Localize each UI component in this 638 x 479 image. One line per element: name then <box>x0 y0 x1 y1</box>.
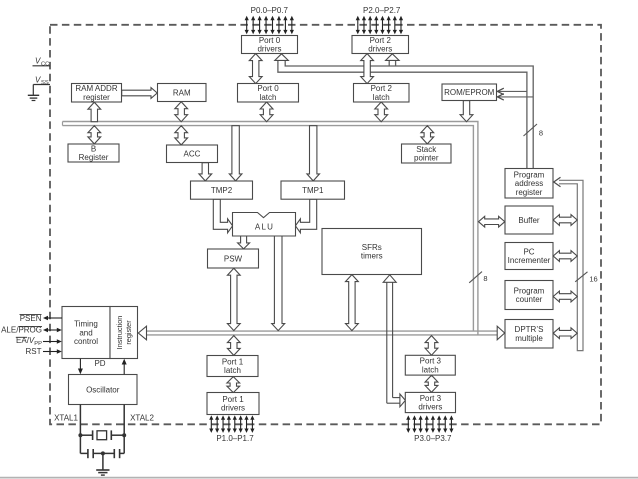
capacitor row <box>80 452 87 454</box>
L-arrow TMP2 to ALU <box>213 199 232 233</box>
arrowhead into program address register <box>554 177 561 187</box>
arrowhead up into Port 0 drivers <box>275 54 289 61</box>
svg-text:Port 3: Port 3 <box>420 357 442 366</box>
arrow Port2 drivers-latch <box>361 54 374 84</box>
svg-text:Port 3: Port 3 <box>420 394 442 403</box>
arrowhead into instruction register <box>138 326 146 340</box>
svg-text:register: register <box>83 93 110 102</box>
crystal circuit wires <box>79 405 81 454</box>
svg-text:PD: PD <box>94 359 105 368</box>
arrowhead into DPTR multiple <box>497 326 505 340</box>
svg-text:drivers: drivers <box>418 403 442 412</box>
slash 8 on internal bus vertical <box>469 272 482 283</box>
svg-text:RAM ADDR: RAM ADDR <box>75 84 117 93</box>
svg-text:ALE/PROG: ALE/PROG <box>1 326 42 335</box>
svg-text:CC: CC <box>41 61 49 67</box>
TMP2 <box>191 181 253 199</box>
RAM ADDR register <box>72 84 122 103</box>
svg-text:SFRs: SFRs <box>362 243 382 252</box>
svg-text:PSEN: PSEN <box>20 314 42 323</box>
svg-text:drivers: drivers <box>257 45 281 54</box>
Port 0 latch <box>238 84 299 103</box>
svg-text:pointer: pointer <box>414 154 439 163</box>
arrow oscillator to instruction register <box>123 362 125 374</box>
Port 0 pin arrows P0.0-P0.7 <box>246 18 248 33</box>
svg-text:multiple: multiple <box>515 334 543 343</box>
svg-text:register: register <box>516 188 543 197</box>
Stack pointer <box>402 144 452 163</box>
Timing and control <box>62 307 110 359</box>
arrow SFRs-second bus <box>346 275 359 331</box>
svg-text:latch: latch <box>224 366 241 375</box>
Port 3 pin arrows P3.0-P3.7 <box>407 417 409 431</box>
arrow Port0 latch-bus <box>260 102 273 122</box>
arrow bus to TMP1 <box>307 126 320 181</box>
dashed chip boundary <box>50 25 601 425</box>
arrow ALU to second bus <box>272 236 285 331</box>
arrow ROM to bus <box>460 101 473 122</box>
svg-text:Instruction: Instruction <box>115 316 124 350</box>
bottom page rule <box>0 477 638 479</box>
svg-text:8: 8 <box>483 274 487 283</box>
svg-text:timers: timers <box>361 252 383 261</box>
svg-text:TMP2: TMP2 <box>211 186 233 195</box>
junction dots <box>78 433 82 437</box>
svg-text:Program: Program <box>514 286 545 295</box>
EA/VPP pin <box>43 341 59 343</box>
svg-text:Port 2: Port 2 <box>370 36 392 45</box>
RAM <box>158 84 207 102</box>
Oscillator <box>69 375 138 405</box>
svg-text:PC: PC <box>523 247 534 256</box>
DPTR's multiple <box>505 320 553 349</box>
Program counter <box>505 281 553 310</box>
svg-text:16: 16 <box>589 275 597 284</box>
arrow DPTR to 16-bus <box>553 328 577 339</box>
svg-text:P2.0–P2.7: P2.0–P2.7 <box>363 6 401 15</box>
svg-text:register: register <box>124 320 133 345</box>
svg-text:and: and <box>79 328 92 337</box>
Port 2 latch <box>354 84 410 103</box>
16-bit bus (right) <box>559 180 583 350</box>
svg-text:Port 2: Port 2 <box>371 84 393 93</box>
Port 1 drivers <box>207 393 259 415</box>
svg-text:ACC: ACC <box>184 150 201 159</box>
arrow bus to TMP2 <box>229 126 242 181</box>
Port 0 drivers <box>242 36 298 54</box>
arrow ALU to PSW <box>238 236 250 249</box>
svg-text:Oscillator: Oscillator <box>86 385 120 394</box>
svg-text:DPTR’S: DPTR’S <box>515 325 544 334</box>
arrow second bus to Port1 latch <box>227 336 240 356</box>
PC incrementer <box>505 243 553 270</box>
TMP1 <box>281 181 345 199</box>
arrow RAM ADDR to RAM <box>122 88 158 99</box>
arrow second bus to Port3 latch <box>425 336 438 356</box>
Port 2 drivers <box>352 36 409 54</box>
svg-text:Port 1: Port 1 <box>222 357 244 366</box>
svg-text:Port 0: Port 0 <box>259 36 281 45</box>
crystal plates <box>92 430 94 440</box>
feed bus from port drivers to ROM/program address register <box>285 60 533 168</box>
svg-text:B: B <box>91 144 96 153</box>
arrow vertical bus to Buffer <box>479 216 505 227</box>
arrow Stack pointer-bus <box>421 126 434 144</box>
Instruction register <box>110 307 138 359</box>
Program address register <box>505 169 553 199</box>
arrow Program counter to 16-bus <box>553 291 577 302</box>
ACC <box>167 145 218 163</box>
ALU <box>233 213 296 237</box>
Port 3 latch <box>405 355 455 375</box>
ground (crystal) <box>102 453 104 470</box>
svg-text:Port 0: Port 0 <box>257 84 279 93</box>
slash 8 on program address bus <box>524 124 538 136</box>
arrow Buffer to 16-bus <box>553 215 577 226</box>
slash 16 <box>575 272 587 282</box>
svg-text:XTAL2: XTAL2 <box>130 414 154 423</box>
svg-text:ALU: ALU <box>255 223 274 232</box>
svg-text:P0.0–P0.7: P0.0–P0.7 <box>251 6 289 15</box>
svg-text:latch: latch <box>260 93 277 102</box>
PSW <box>208 249 259 268</box>
arrow ACC to TMP2 <box>199 163 212 181</box>
svg-text:Buffer: Buffer <box>518 216 540 225</box>
main internal bus (horizontal, turns down at right) <box>63 122 478 335</box>
svg-text:P1.0–P1.7: P1.0–P1.7 <box>216 434 254 443</box>
Port 2 pin arrows P2.0-P2.7 <box>357 18 359 33</box>
L-arrow TMP1 to ALU <box>295 199 316 233</box>
arrow Port1 latch-drivers <box>227 377 240 393</box>
svg-text:TMP1: TMP1 <box>302 186 324 195</box>
arrow Port0 drivers-latch <box>249 54 262 84</box>
svg-text:P3.0–P3.7: P3.0–P3.7 <box>414 434 452 443</box>
svg-text:Timing: Timing <box>74 320 98 329</box>
svg-text:RST: RST <box>26 347 42 356</box>
Port 1 latch <box>207 356 258 377</box>
arrow Port2 latch-bus <box>375 102 388 122</box>
svg-text:SS: SS <box>41 80 49 86</box>
ground (VSS) <box>32 85 34 96</box>
RST pin <box>43 351 59 353</box>
svg-text:latch: latch <box>373 93 390 102</box>
SFRs timers <box>322 229 422 275</box>
arrow B register-bus <box>88 126 101 144</box>
arrow ACC-bus <box>175 126 188 145</box>
svg-text:Incrementer: Incrementer <box>508 256 551 265</box>
Port 1 pin arrows P1.0-P1.7 <box>210 417 212 431</box>
svg-text:control: control <box>74 337 98 346</box>
Port 3 drivers <box>405 392 455 412</box>
ALE/PROG pin <box>46 329 59 331</box>
svg-text:address: address <box>515 179 543 188</box>
branch up into Port 2 drivers <box>388 60 390 66</box>
SFR up-arrow and line to Port3 drivers <box>386 282 388 403</box>
ROM/EPROM <box>442 84 497 101</box>
svg-text:PSW: PSW <box>224 254 243 263</box>
svg-text:Stack: Stack <box>416 145 437 154</box>
Buffer <box>505 206 553 234</box>
svg-text:drivers: drivers <box>368 45 392 54</box>
svg-text:latch: latch <box>422 365 439 374</box>
svg-text:XTAL1: XTAL1 <box>54 414 78 423</box>
arrow RAM-bus <box>175 102 188 122</box>
crystal leads <box>80 434 92 436</box>
svg-text:Register: Register <box>79 153 109 162</box>
arrow timing to oscillator <box>79 359 81 371</box>
svg-text:RAM: RAM <box>173 88 191 97</box>
svg-text:Program: Program <box>514 170 545 179</box>
arrow bus to RAM ADDR <box>88 102 101 122</box>
svg-text:Port 1: Port 1 <box>222 395 244 404</box>
B register <box>68 144 119 162</box>
arrow Port3 latch-drivers <box>425 375 438 392</box>
arrow PC incrementer to 16-bus <box>553 251 577 262</box>
svg-text:8: 8 <box>539 129 543 138</box>
branch arrows into ROM/EPROM <box>498 90 527 92</box>
svg-text:ROM/EPROM: ROM/EPROM <box>444 88 495 97</box>
svg-text:drivers: drivers <box>221 404 245 413</box>
second internal bus (to instruction register / DPTR) <box>146 330 498 332</box>
PSEN pin <box>46 317 62 319</box>
crystal body <box>97 431 107 440</box>
svg-text:counter: counter <box>516 295 543 304</box>
arrow PSW-second bus <box>227 268 240 330</box>
